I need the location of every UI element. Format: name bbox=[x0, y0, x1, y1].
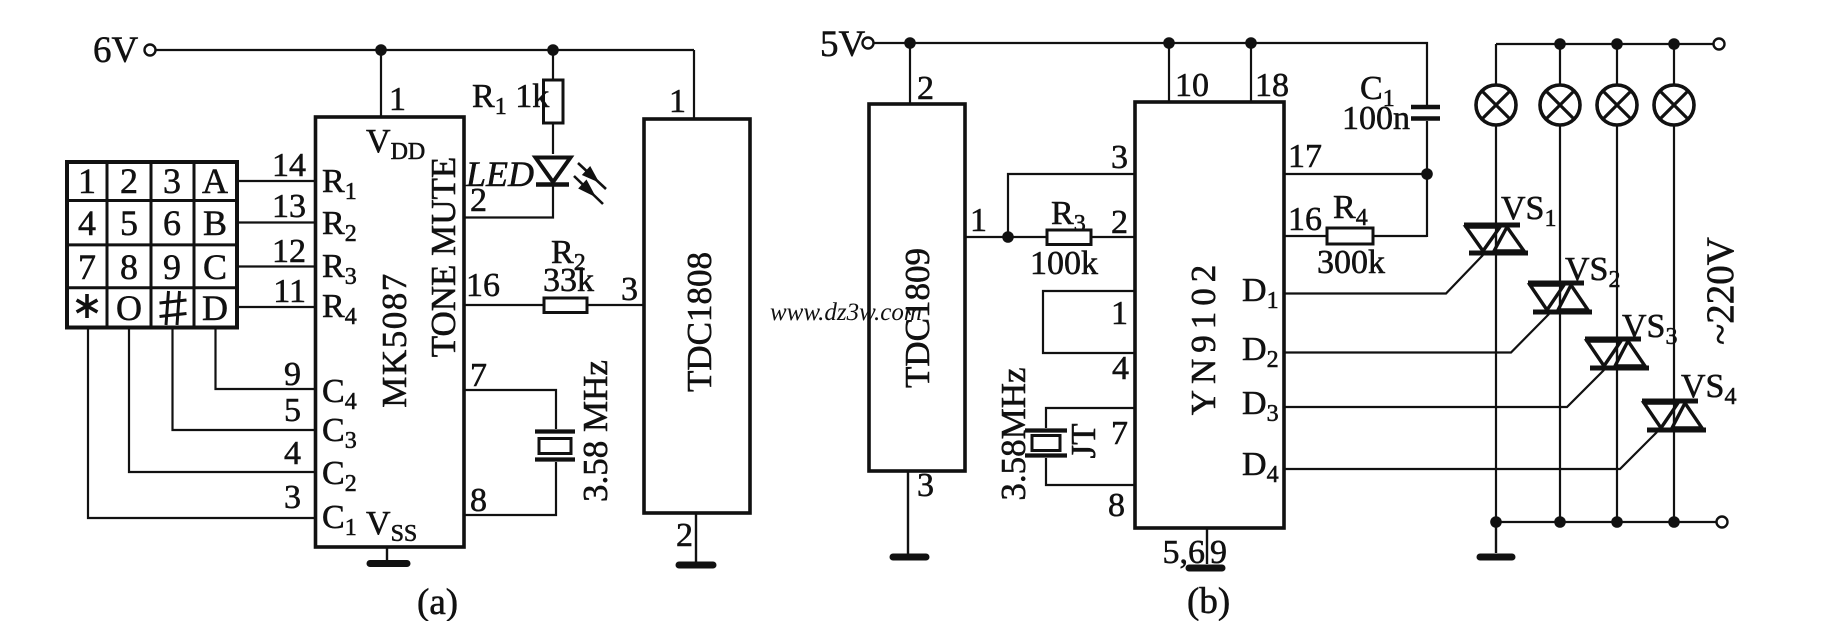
wire lamp3 branch bbox=[1616, 44, 1618, 522]
svg-text:JT: JT bbox=[1064, 424, 1103, 459]
wire pin18 bbox=[1250, 43, 1252, 102]
IC U2 TDC1808 box bbox=[644, 119, 750, 513]
svg-text:C2: C2 bbox=[322, 455, 357, 497]
svg-text:(a): (a) bbox=[417, 582, 458, 621]
crystal B1 3.58MHz bbox=[535, 429, 575, 433]
junction YN9102 pin10 bbox=[1163, 37, 1175, 49]
terminal AC top bbox=[1714, 39, 1725, 50]
svg-text:D: D bbox=[202, 288, 228, 328]
svg-text:300k: 300k bbox=[1317, 244, 1385, 281]
triac VS3 bbox=[1585, 339, 1649, 368]
terminal AC bottom bbox=[1717, 517, 1728, 528]
lamp HL1 bbox=[1476, 85, 1516, 125]
svg-text:16: 16 bbox=[1288, 201, 1322, 238]
wire pin7 to crystal bbox=[464, 390, 556, 429]
svg-text:11: 11 bbox=[273, 273, 306, 310]
junction at MK5087 pin1 bbox=[375, 44, 387, 56]
lamp HL4 bbox=[1654, 85, 1694, 125]
svg-text:13: 13 bbox=[272, 188, 306, 225]
svg-text:1: 1 bbox=[1111, 295, 1128, 332]
svg-text:D3: D3 bbox=[1242, 385, 1279, 427]
svg-text:D2: D2 bbox=[1242, 331, 1279, 373]
junction TDC809 pin2 bbox=[904, 37, 916, 49]
svg-text:D4: D4 bbox=[1242, 446, 1279, 488]
svg-text:3: 3 bbox=[1111, 139, 1128, 176]
wire pin16 to R4 bbox=[1284, 235, 1327, 237]
svg-text:VS4: VS4 bbox=[1681, 368, 1736, 410]
svg-text:R4: R4 bbox=[1333, 189, 1368, 231]
svg-text:3: 3 bbox=[917, 467, 934, 504]
junction bottom lamp3 bbox=[1611, 516, 1623, 528]
wire pin1 MK5087 bbox=[380, 50, 382, 117]
wire crystal to pin8 bbox=[464, 462, 556, 515]
svg-text:3.58 MHz: 3.58 MHz bbox=[576, 360, 615, 502]
wire loop pin1 to pin4 bbox=[1043, 291, 1135, 353]
svg-text:R1 1k: R1 1k bbox=[472, 78, 549, 120]
wire col O to C2 bbox=[129, 328, 316, 473]
wire D3 to VS3 gate bbox=[1284, 370, 1604, 407]
key hash bbox=[160, 291, 187, 325]
wire D1 to VS1 gate bbox=[1284, 255, 1483, 294]
wire TDC809 pin3 to ground bbox=[907, 471, 909, 554]
wire C1 down to R4 node bbox=[1426, 121, 1428, 237]
key star bbox=[77, 294, 98, 318]
svg-text:R3: R3 bbox=[322, 248, 357, 290]
wire lamp2 branch bbox=[1559, 44, 1561, 522]
ground AC bbox=[1480, 554, 1512, 561]
LED emission arrow 1 bbox=[578, 163, 606, 189]
lamp HL3 bbox=[1597, 85, 1637, 125]
svg-text:C4: C4 bbox=[322, 373, 357, 415]
svg-text:B: B bbox=[203, 203, 227, 243]
junction bottom lamp4 bbox=[1668, 516, 1680, 528]
svg-text:12: 12 bbox=[272, 233, 306, 270]
svg-text:3.58MHz: 3.58MHz bbox=[994, 367, 1033, 500]
wire row1 to R1 bbox=[237, 180, 316, 182]
svg-text:14: 14 bbox=[272, 147, 306, 184]
wire 6V rail bbox=[156, 49, 694, 51]
svg-text:~220V: ~220V bbox=[1699, 237, 1742, 345]
svg-text:R2: R2 bbox=[322, 205, 357, 247]
svg-text:5: 5 bbox=[284, 392, 301, 429]
svg-text:4: 4 bbox=[78, 203, 96, 243]
svg-text:17: 17 bbox=[1288, 138, 1322, 175]
svg-text:9: 9 bbox=[284, 356, 301, 393]
junction at R1 top bbox=[547, 44, 559, 56]
wire rail to TDC1808 pin1 bbox=[693, 50, 695, 119]
wire row2 to R2 bbox=[237, 221, 316, 223]
wire D4 to VS4 gate bbox=[1284, 432, 1657, 469]
op IC U1 MK5087 box bbox=[316, 117, 465, 547]
svg-text:C3: C3 bbox=[322, 412, 357, 454]
wire row3 to R3 bbox=[237, 265, 316, 267]
svg-text:C1: C1 bbox=[322, 499, 357, 541]
svg-text:8: 8 bbox=[470, 482, 487, 519]
capacitor C1 bbox=[1411, 107, 1440, 119]
ground MK5087 bbox=[370, 560, 407, 567]
wire TDC809 pin1 to R3 bbox=[965, 236, 1047, 238]
LED emission arrow 2 bbox=[574, 176, 603, 204]
svg-text:4: 4 bbox=[284, 435, 301, 472]
terminal 5V bbox=[863, 38, 874, 49]
wire node to YN9102 pin3 bbox=[1008, 174, 1135, 237]
wire pin17 bbox=[1284, 173, 1427, 175]
svg-text:8: 8 bbox=[1108, 487, 1125, 524]
junction bottom lamp2 bbox=[1554, 516, 1566, 528]
lamp HL2 bbox=[1540, 85, 1580, 125]
terminal 6V bbox=[145, 45, 156, 56]
svg-text:33k: 33k bbox=[543, 262, 594, 299]
svg-text:VS1: VS1 bbox=[1501, 190, 1556, 232]
svg-text:7: 7 bbox=[78, 247, 96, 287]
wire bottom rail to ground bbox=[1495, 522, 1497, 553]
svg-text:6: 6 bbox=[163, 203, 181, 243]
svg-text:VSS: VSS bbox=[366, 505, 417, 547]
wire col D to C4 bbox=[216, 328, 316, 390]
svg-text:16: 16 bbox=[466, 267, 500, 304]
junction lamp2 top bbox=[1554, 38, 1566, 50]
resistor R3 bbox=[1047, 230, 1091, 245]
svg-text:9: 9 bbox=[163, 247, 181, 287]
wire crystal JT to pin8 bbox=[1046, 458, 1135, 485]
svg-text:1: 1 bbox=[389, 81, 406, 118]
triac VS2 bbox=[1528, 283, 1592, 312]
wire pin10 bbox=[1168, 43, 1170, 102]
svg-text:6V: 6V bbox=[93, 30, 139, 71]
wire 5V to TDC809 pin2 bbox=[909, 43, 911, 104]
svg-text:R4: R4 bbox=[322, 288, 357, 330]
wire YN9102 pin9 to ground bbox=[1206, 528, 1208, 564]
junction lamp3 top bbox=[1611, 38, 1623, 50]
svg-text:VS2: VS2 bbox=[1565, 251, 1620, 293]
wire col hash to C3 bbox=[173, 328, 316, 431]
svg-text:8: 8 bbox=[120, 247, 138, 287]
wire AC top rail bbox=[1496, 43, 1713, 45]
IC U3 TDC1809 box bbox=[869, 104, 965, 471]
svg-text:3: 3 bbox=[621, 271, 638, 308]
svg-text:O: O bbox=[116, 288, 142, 328]
svg-text:(b): (b) bbox=[1187, 581, 1230, 621]
junction pin17 node bbox=[1421, 168, 1433, 180]
wire lamp4 branch bbox=[1673, 44, 1675, 522]
ground TDC1808 bbox=[679, 562, 713, 569]
junction bottom lamp1 bbox=[1490, 516, 1502, 528]
wire row4 to R4 bbox=[237, 306, 316, 308]
triac VS4 bbox=[1642, 401, 1706, 430]
wire 5V rail bbox=[874, 43, 1427, 105]
crystal JT 3.58MHz bbox=[1025, 428, 1067, 432]
triac VS1 bbox=[1464, 225, 1528, 253]
keypad grid lines bbox=[67, 162, 237, 328]
svg-text:A: A bbox=[202, 161, 228, 201]
svg-text:VS3: VS3 bbox=[1622, 308, 1677, 350]
IC U4 YN9102 box bbox=[1135, 102, 1284, 528]
wire TDC1808 pin2 to ground bbox=[695, 513, 697, 562]
svg-text:2: 2 bbox=[1111, 204, 1128, 241]
wire LED to pin2 bbox=[464, 184, 553, 218]
wire R4 to node bbox=[1373, 235, 1427, 237]
svg-text:C: C bbox=[203, 247, 227, 287]
keypad outer box bbox=[67, 162, 237, 328]
svg-text:D1: D1 bbox=[1242, 272, 1279, 314]
svg-text:VDD: VDD bbox=[366, 123, 425, 165]
svg-text:1: 1 bbox=[669, 83, 686, 120]
svg-text:TONE MUTE: TONE MUTE bbox=[424, 157, 463, 358]
svg-text:10: 10 bbox=[1175, 67, 1209, 104]
wire R3 to YN9102 pin2 bbox=[1091, 236, 1135, 238]
wire MK5087 VSS to ground bbox=[386, 547, 388, 561]
LED D1 bbox=[536, 158, 571, 183]
svg-text:18: 18 bbox=[1255, 67, 1289, 104]
resistor R2 bbox=[544, 298, 587, 313]
svg-text:2: 2 bbox=[676, 517, 693, 554]
svg-text:2: 2 bbox=[120, 161, 138, 201]
svg-text:TDC1808: TDC1808 bbox=[680, 252, 719, 392]
svg-text:YN9102: YN9102 bbox=[1184, 259, 1223, 416]
svg-text:5V: 5V bbox=[820, 24, 866, 65]
svg-text:2: 2 bbox=[470, 182, 487, 219]
svg-text:5: 5 bbox=[120, 203, 138, 243]
svg-text:R1: R1 bbox=[322, 163, 357, 205]
svg-text:1: 1 bbox=[970, 202, 987, 239]
wire lamp1 branch bbox=[1495, 44, 1497, 522]
svg-text:TDC1809: TDC1809 bbox=[898, 248, 937, 388]
wire col star to C1 bbox=[88, 328, 316, 519]
wire R2 to TDC1808 pin3 bbox=[587, 304, 644, 306]
svg-text:3: 3 bbox=[163, 161, 181, 201]
wire pin16 to R2 bbox=[464, 304, 544, 306]
svg-text:3: 3 bbox=[284, 479, 301, 516]
svg-text:MK5087: MK5087 bbox=[375, 272, 414, 407]
svg-text:7: 7 bbox=[470, 357, 487, 394]
wire D2 to VS2 gate bbox=[1284, 314, 1549, 353]
ground TDC809 bbox=[893, 554, 926, 561]
svg-text:R3: R3 bbox=[1051, 195, 1086, 237]
wire pin7 to crystal JT bbox=[1046, 408, 1135, 428]
resistor R1 bbox=[552, 50, 554, 154]
junction YN9102 pin18 bbox=[1245, 37, 1257, 49]
svg-text:1: 1 bbox=[78, 161, 96, 201]
wire AC bottom rail bbox=[1496, 521, 1716, 523]
junction node pin1 bbox=[1002, 231, 1014, 243]
junction lamp4 top bbox=[1668, 38, 1680, 50]
svg-text:2: 2 bbox=[917, 70, 934, 107]
svg-text:7: 7 bbox=[1111, 415, 1128, 452]
resistor R4 bbox=[1327, 228, 1373, 244]
ground YN9102 bbox=[1189, 565, 1222, 572]
svg-text:4: 4 bbox=[1112, 350, 1129, 387]
svg-text:100k: 100k bbox=[1030, 245, 1098, 282]
svg-text:100n: 100n bbox=[1342, 100, 1410, 137]
